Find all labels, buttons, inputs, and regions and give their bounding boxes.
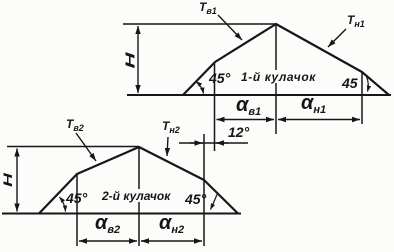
- cam 2 profile polyline: [39, 147, 238, 214]
- dimension alpha_b1: [217, 119, 275, 121]
- dimension alpha_h2: [141, 240, 202, 242]
- leader arrow from T_h1 to fall flank: [328, 29, 346, 47]
- dimension alpha_h1: [278, 119, 360, 121]
- svg-text:2-й кулачок: 2-й кулачок: [101, 189, 171, 203]
- 45-degree arc at cam 2 left vertex: [60, 197, 66, 212]
- cam 1 right-knee extension line: [361, 72, 363, 124]
- cam 2 baseline: [2, 213, 241, 215]
- svg-text:45°: 45°: [65, 190, 88, 206]
- dimension H (cam 1) arrows: [137, 26, 139, 93]
- svg-text:H: H: [2, 173, 15, 187]
- svg-text:45°: 45°: [208, 70, 231, 86]
- cam 1 centerline from apex: [275, 24, 277, 134]
- 45-degree arc at cam 1 left vertex: [196, 82, 204, 94]
- label 2nd cam with white backing: [101, 189, 171, 203]
- cam 2 centerline from apex: [138, 147, 140, 246]
- svg-text:45: 45: [341, 75, 358, 91]
- dimension alpha_b2: [79, 240, 137, 242]
- cam 2 right-knee extension line: [203, 134, 205, 246]
- svg-text:H: H: [123, 51, 137, 68]
- svg-text:12°: 12°: [228, 124, 250, 140]
- 12-degree left outside arrow: [190, 142, 203, 144]
- leader arrow from T_h2 to fall flank: [167, 137, 168, 156]
- svg-text:45°: 45°: [184, 191, 207, 207]
- dimension H (cam 2) arrows: [16, 149, 18, 212]
- 45-degree arc at cam 1 right vertex: [367, 77, 369, 92]
- 12-degree right outside arrow: [216, 142, 228, 144]
- cam 2 apex-height extension line: [7, 146, 139, 148]
- cam 1 apex-height extension line: [123, 23, 276, 25]
- cam 1 profile polyline: [183, 24, 389, 95]
- label 1st cam with white backing: [240, 70, 317, 84]
- cam 2 left-knee extension line: [76, 174, 78, 246]
- svg-text:1-й кулачок: 1-й кулачок: [241, 70, 316, 84]
- cam 1 baseline: [127, 94, 391, 96]
- leader arrow from T_b1 to rise flank: [218, 15, 242, 40]
- leader arrow from T_b2 to rise flank: [76, 133, 96, 161]
- 12-degree dimension line: [179, 142, 248, 144]
- 45-degree arc at cam 2 right vertex: [211, 195, 218, 210]
- cam 1 left-knee extension line: [214, 62, 216, 151]
